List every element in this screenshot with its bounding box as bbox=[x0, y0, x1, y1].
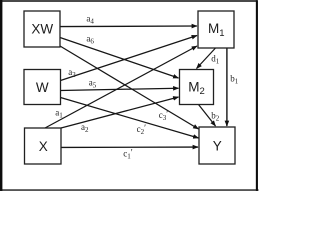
svg-text:a4: a4 bbox=[86, 14, 94, 26]
wire b1: M1 to Y bbox=[226, 48, 228, 126]
svg-text:b2: b2 bbox=[211, 111, 220, 123]
svg-text:a2: a2 bbox=[81, 122, 89, 134]
svg-text:Y: Y bbox=[213, 139, 222, 154]
wire b2: M2 to Y bbox=[199, 105, 216, 127]
wire a3: W to M1 bbox=[61, 36, 198, 81]
wire a1: X to M1 bbox=[45, 46, 197, 128]
outer frame left edge bbox=[0, 0, 2, 191]
svg-text:a5: a5 bbox=[89, 78, 97, 90]
wire d1: M1 to M2 bbox=[197, 48, 216, 69]
svg-text:c3′: c3′ bbox=[159, 109, 169, 122]
svg-text:a1: a1 bbox=[55, 108, 63, 120]
svg-text:W: W bbox=[36, 80, 49, 95]
wire c1': X to Y bbox=[61, 146, 198, 148]
svg-text:XW: XW bbox=[31, 21, 53, 36]
wire a6: XW to M2 bbox=[60, 38, 179, 79]
wire c2': W to Y bbox=[61, 98, 199, 139]
node XW bbox=[24, 11, 60, 47]
outer frame top edge bbox=[1, 0, 258, 2]
wire a2: X to M2 bbox=[61, 97, 179, 128]
svg-text:X: X bbox=[39, 139, 48, 154]
node Y bbox=[199, 127, 235, 164]
svg-text:a6: a6 bbox=[86, 33, 94, 45]
node W bbox=[24, 70, 61, 105]
node X bbox=[25, 128, 62, 164]
wire c3': XW to Y bbox=[60, 46, 199, 129]
node M1 bbox=[198, 11, 234, 48]
node M2 bbox=[180, 70, 214, 105]
outer frame bottom edge bbox=[0, 189, 259, 191]
outer frame right edge bbox=[256, 0, 258, 191]
wire a4: XW to M1 bbox=[60, 25, 197, 28]
svg-text:c2′: c2′ bbox=[137, 123, 147, 136]
wire a5: W to M2 bbox=[61, 88, 179, 90]
svg-text:b1: b1 bbox=[230, 73, 239, 85]
svg-text:c1′: c1′ bbox=[123, 148, 133, 161]
svg-text:d1: d1 bbox=[211, 54, 220, 66]
